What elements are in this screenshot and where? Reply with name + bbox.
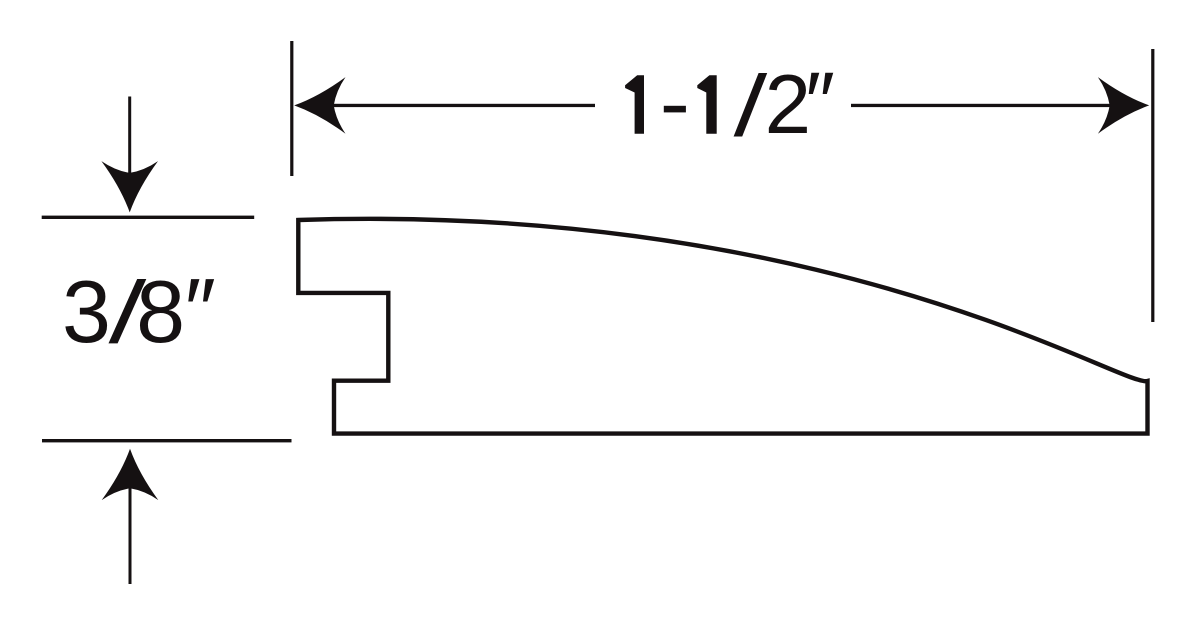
dimension line left segment (331, 104, 595, 107)
tick line upper (3/8 dimension) (42, 216, 255, 219)
arrowhead left (points left) (294, 77, 345, 134)
molding profile outline (298, 219, 1147, 434)
down arrow shaft (128, 97, 131, 179)
tick line lower (3/8 dimension) (42, 439, 292, 442)
label 1-1/2 inch : digit 1 (625, 75, 644, 134)
arrowhead up (102, 449, 159, 500)
svg-text:3: 3 (62, 262, 111, 361)
dimension line right segment (851, 104, 1111, 107)
label 1-1/2 inch : hyphen (664, 106, 686, 113)
arrowhead right (points right) (1098, 77, 1149, 134)
arrowhead down (101, 161, 158, 212)
svg-text:″: ″ (805, 55, 835, 149)
svg-text:″: ″ (185, 260, 216, 359)
extension line right (top dimension) (1151, 49, 1154, 322)
extension line left (top dimension) (290, 41, 293, 176)
label 1-1/2 inch : slash (734, 73, 768, 137)
label 3/8 inch : slash (109, 279, 147, 343)
svg-text:8: 8 (136, 262, 185, 361)
up arrow shaft (129, 487, 132, 584)
svg-text:2: 2 (765, 57, 811, 151)
label 1-1/2 inch : digit 1 (697, 75, 716, 134)
